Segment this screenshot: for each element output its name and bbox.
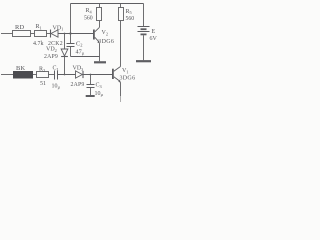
wire V2 emitter down: [99, 43, 101, 61]
resistor R2 51: [37, 66, 49, 87]
svg-text:10µ: 10µ: [95, 91, 104, 97]
wire node A to VD2 anode: [64, 34, 66, 50]
node VD2 top junction dot: [64, 33, 66, 35]
svg-text:E: E: [152, 29, 156, 35]
resistor R5 560: [119, 8, 135, 22]
node VD2 bottom junction dot: [64, 74, 66, 76]
svg-text:560: 560: [126, 16, 135, 22]
battery E 6V: [138, 4, 158, 61]
wire VD2 cathode down to bottom chain: [64, 57, 66, 75]
wire rail to R5: [120, 4, 122, 8]
diode VD1 2CK2: [48, 25, 63, 47]
wire top supply rail: [71, 3, 144, 5]
svg-text:VD1: VD1: [53, 25, 64, 31]
wire C2 return to V2 emitter: [71, 56, 100, 58]
resistor R4 560: [84, 8, 102, 22]
resistor R1 4.7k: [33, 24, 47, 47]
capacitor C3 10u: [87, 75, 104, 97]
svg-text:R4: R4: [86, 8, 93, 14]
wire R4 to V2 collector: [99, 21, 101, 28]
wire VD3 to V1 base: [83, 74, 112, 76]
capacitor C2 47u: [67, 34, 85, 57]
wire RD to R1: [31, 33, 35, 35]
node A junction dot: [69, 32, 71, 34]
svg-text:6V: 6V: [150, 36, 158, 42]
wire R2 to C1: [49, 74, 55, 76]
svg-text:C3: C3: [96, 82, 102, 88]
svg-text:BK: BK: [16, 65, 25, 72]
node C3 junction dot: [90, 74, 92, 76]
svg-text:V1: V1: [122, 68, 129, 74]
transistor V1 3DG6: [112, 67, 135, 83]
svg-text:R1: R1: [36, 24, 42, 30]
resistor RD: [13, 24, 31, 37]
diode VD2 2AP9: [44, 47, 68, 60]
wire V1 emitter tail (fading): [120, 96, 122, 102]
sensor BK (black box): [13, 65, 33, 79]
svg-text:47µ: 47µ: [76, 48, 85, 55]
svg-text:3DG6: 3DG6: [120, 76, 136, 82]
svg-text:VD3: VD3: [73, 65, 84, 71]
svg-text:4.7k: 4.7k: [33, 41, 44, 47]
ground V2 emitter: [94, 61, 106, 63]
wire V1 emitter down: [120, 82, 122, 96]
wire R5 to V1 collector: [120, 21, 122, 67]
wire VD1 to V2 base: [58, 33, 93, 35]
wire rail to R4: [99, 4, 101, 8]
svg-text:2AP9: 2AP9: [71, 82, 85, 88]
svg-text:3DG6: 3DG6: [98, 39, 114, 45]
wire input bottom-left: [1, 74, 13, 76]
wire C1 to VD3: [58, 74, 76, 76]
wire R1 to VD1: [47, 33, 51, 35]
svg-text:C1: C1: [53, 65, 59, 71]
svg-text:VD2: VD2: [46, 47, 57, 53]
diode VD3 2AP9: [71, 65, 85, 88]
svg-text:RD: RD: [15, 24, 25, 31]
capacitor C1 10u: [52, 65, 61, 89]
svg-text:C2: C2: [76, 40, 82, 47]
ground C3: [86, 95, 95, 97]
svg-text:51: 51: [40, 81, 46, 87]
ground battery negative: [136, 60, 151, 62]
wire BK to R2: [33, 74, 37, 76]
svg-text:R5: R5: [126, 9, 132, 15]
svg-text:2AP9: 2AP9: [44, 54, 58, 60]
svg-text:560: 560: [84, 16, 93, 22]
transistor V2 3DG6: [93, 27, 114, 45]
svg-text:R2: R2: [39, 66, 45, 72]
svg-text:V2: V2: [102, 30, 109, 36]
wire input top-left: [1, 33, 13, 35]
wire riser node A to top rail: [70, 4, 72, 34]
svg-text:10µ: 10µ: [52, 84, 61, 90]
